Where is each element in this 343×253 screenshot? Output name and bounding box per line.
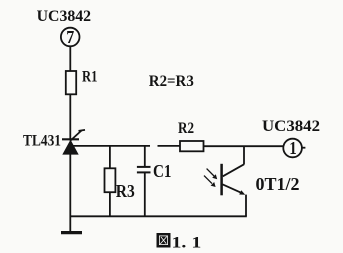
light arrow 2 (204, 176, 212, 184)
resistor R2 (180, 141, 204, 151)
resistor R3 lead top (109, 146, 111, 168)
phototransistor base bar (220, 164, 223, 196)
svg-text:R2=R3: R2=R3 (149, 73, 194, 90)
svg-text:R3: R3 (116, 181, 135, 201)
ground (61, 231, 82, 234)
svg-text:C1: C1 (153, 161, 172, 181)
resistor R3 lead bottom (109, 192, 111, 216)
wire collector junction (243, 146, 245, 164)
wire emitter down (245, 195, 247, 217)
phototransistor emitter with arrow (222, 184, 240, 192)
wire pin7 to R1 (69, 47, 71, 71)
capacitor C1 lead bottom (144, 173, 146, 216)
capacitor C1 (137, 166, 151, 168)
bottom wire (70, 215, 247, 217)
svg-text:1: 1 (289, 138, 297, 158)
svg-text:R1: R1 (82, 69, 97, 86)
resistor R1 (66, 71, 76, 94)
svg-text:UC3842: UC3842 (262, 118, 320, 135)
svg-text:7: 7 (66, 27, 74, 47)
wire R1 to TL431 (69, 94, 71, 138)
caption figure glyph (CJK tu) (157, 233, 171, 248)
resistor R3 (105, 168, 116, 192)
wire TL431 anode to ground (69, 154, 71, 233)
wire R2 to pin 1 (204, 145, 284, 147)
TL431 U1 (62, 130, 85, 155)
svg-text:TL431: TL431 (23, 133, 61, 150)
pin 7 terminal circle (61, 28, 80, 47)
pin 1 terminal circle (283, 139, 302, 158)
phototransistor OT1/2 collector (223, 164, 244, 176)
capacitor C1 lead top (144, 146, 146, 167)
svg-text:UC3842: UC3842 (37, 8, 92, 25)
svg-text:R2: R2 (178, 120, 194, 137)
svg-text:0T1/2: 0T1/2 (256, 174, 300, 194)
wire node K to R2 (with scan gap) (74, 145, 151, 147)
svg-text:1. 1: 1. 1 (172, 235, 202, 252)
wire stub right of pin 1 (302, 147, 305, 149)
light arrow 1 (207, 169, 214, 176)
